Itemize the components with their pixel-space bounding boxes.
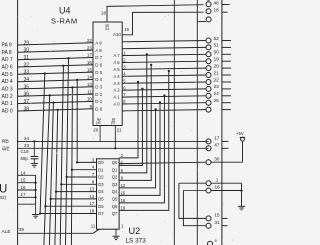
- svg-text:AD 2: AD 2: [2, 94, 13, 100]
- wire tap AD 0 down to U2 D4: [57, 109, 59, 111]
- connector pin 52: [206, 38, 211, 43]
- wire U4 A-line to connector 25: [122, 103, 206, 104]
- svg-text:37: 37: [24, 99, 30, 105]
- svg-text:32: 32: [24, 62, 30, 68]
- wire connector pin 1: [179, 182, 206, 184]
- svg-text:38: 38: [24, 106, 30, 112]
- svg-text:LS 373: LS 373: [126, 238, 147, 245]
- wire AD 2 (pin 36) from U to U4 pin 11: [18, 94, 93, 96]
- svg-text:23: 23: [87, 45, 93, 50]
- svg-text:D6: D6: [98, 204, 104, 209]
- svg-text:22: 22: [87, 38, 93, 43]
- connector pin 47 (WE): [206, 146, 211, 151]
- svg-text:23: 23: [214, 84, 220, 90]
- svg-text:30: 30: [214, 156, 220, 161]
- svg-text:AD 0: AD 0: [2, 109, 13, 115]
- svg-text:35: 35: [24, 84, 30, 90]
- svg-text:A 4: A 4: [114, 74, 121, 79]
- svg-text:Q1: Q1: [112, 167, 118, 172]
- svg-text:8: 8: [123, 99, 126, 104]
- svg-text:34: 34: [24, 77, 30, 83]
- svg-text:25: 25: [214, 98, 220, 104]
- svg-text:17: 17: [214, 135, 220, 140]
- connector pin cut at bottom edge: [208, 241, 213, 245]
- svg-text:3: 3: [92, 157, 95, 162]
- svg-text:+5V: +5V: [236, 131, 244, 136]
- svg-text:D 5: D 5: [95, 70, 102, 75]
- svg-text:33: 33: [24, 70, 30, 76]
- svg-text:Q6: Q6: [112, 204, 118, 209]
- U4 pin 21 WE stub: [114, 126, 116, 149]
- svg-text:11: 11: [91, 223, 96, 228]
- svg-text:A 3: A 3: [114, 81, 121, 86]
- wire U2 D7 input (pin 18): [40, 213, 96, 215]
- wire U2 D5 input (pin 14): [51, 198, 97, 200]
- svg-text:S-RAM: S-RAM: [51, 17, 78, 26]
- wire RD from U pin 24 to U4 OE and connector 17: [18, 140, 209, 142]
- svg-text:6: 6: [121, 168, 124, 173]
- wire AD 5 (pin 33) from U to U4 pin 15: [18, 72, 93, 74]
- wire continues to bottom edge: [70, 170, 73, 245]
- svg-text:D 0: D 0: [95, 107, 102, 112]
- svg-text:Q0: Q0: [112, 160, 118, 165]
- svg-text:6: 6: [123, 85, 126, 90]
- wire U2 Q3 (pin 9) up to address line: [119, 65, 151, 181]
- wire U2 VCC pin 20 to connector 30 and +5V: [119, 162, 206, 163]
- wire to connector pin 31: [183, 191, 206, 226]
- svg-text:A 8: A 8: [95, 48, 102, 53]
- connector pin 1 (GND): [206, 181, 211, 186]
- wire PA 9 (pin 29) from U to U4 pin 22: [18, 43, 93, 45]
- wire to ground: [35, 204, 37, 214]
- svg-text:D0: D0: [98, 160, 104, 165]
- svg-text:14: 14: [87, 75, 93, 80]
- svg-text:A 5: A 5: [114, 67, 121, 72]
- svg-text:68p: 68p: [21, 156, 29, 161]
- ground right rail: [238, 206, 245, 209]
- junction dots pins 15,16,17: [35, 182, 37, 184]
- svg-text:30: 30: [24, 48, 30, 54]
- wire tap AD 6 down to U2 D3: [62, 65, 64, 67]
- vertical bus line: [173, 0, 175, 245]
- svg-text:7: 7: [92, 172, 95, 177]
- wire U4 A-line to connector 20: [122, 68, 206, 69]
- svg-text:5: 5: [121, 160, 124, 165]
- wire U4 A-line to connector 52: [122, 41, 206, 42]
- svg-text:U: U: [0, 184, 7, 196]
- wire ALE from U pin 39 to U2 pin 11: [18, 232, 93, 234]
- svg-text:'39: '39: [18, 227, 24, 232]
- wire U2 D0 input (pin 3): [77, 161, 96, 163]
- wire continues to bottom edge: [60, 184, 61, 245]
- connector pin (unlabeled): [206, 17, 211, 22]
- connector pin: [206, 107, 211, 112]
- svg-text:15: 15: [214, 213, 220, 218]
- svg-text:A 1: A 1: [114, 95, 121, 100]
- connector pin 51: [206, 45, 211, 50]
- svg-text:AD 4: AD 4: [2, 79, 13, 85]
- wire from top edge to connector pin: [197, 0, 206, 22]
- wire U4 A-line to connector 22: [122, 82, 206, 83]
- svg-text:A 7: A 7: [114, 53, 121, 58]
- wire U4 A-line to connector pin: [122, 110, 206, 111]
- wire continues to bottom edge: [49, 199, 50, 245]
- svg-text:11: 11: [87, 89, 92, 94]
- wire U4 CS pin 18 to connector 48: [107, 5, 204, 22]
- svg-text:1: 1: [121, 223, 124, 228]
- svg-text:D 6: D 6: [95, 63, 102, 68]
- svg-text:̅O̅E: ̅O̅E: [111, 118, 116, 126]
- svg-text:2: 2: [123, 58, 126, 63]
- connector pin 31: [206, 223, 211, 228]
- svg-text:19: 19: [124, 27, 129, 32]
- svg-text:D 7: D 7: [95, 55, 102, 60]
- U pins 14,15,16,17 stub cells: [18, 174, 36, 176]
- svg-text:Q5: Q5: [112, 197, 118, 202]
- connector pin cut at top edge: [206, 0, 211, 1]
- svg-text:19: 19: [121, 205, 126, 210]
- svg-text:A10: A10: [113, 32, 121, 37]
- connector pin 48: [206, 2, 211, 7]
- svg-text:29: 29: [24, 40, 30, 46]
- wire U4 A-line to connector 50: [122, 54, 206, 55]
- svg-text:21: 21: [117, 127, 122, 132]
- wire U2 Q5 (pin 15) up to address line: [119, 102, 160, 195]
- connector pin 24: [206, 93, 211, 98]
- wire U2 Q4 (pin 12) up to address line: [119, 109, 156, 188]
- svg-text:12: 12: [121, 183, 126, 188]
- svg-text:31: 31: [24, 55, 30, 61]
- connector strip edge: [221, 0, 223, 245]
- svg-text:15: 15: [21, 178, 27, 183]
- wire to connector pin 15: [179, 183, 206, 218]
- svg-text:15: 15: [121, 190, 126, 195]
- wire tap AD 4 down to U2 D0: [76, 79, 78, 81]
- ground for U2 OE: [112, 236, 119, 239]
- wire U2 Q7 (pin 19) up to address line: [119, 71, 169, 210]
- svg-text:A 0: A 0: [114, 102, 121, 107]
- svg-text:20: 20: [93, 127, 98, 132]
- svg-text:17: 17: [90, 201, 95, 206]
- svg-text:24: 24: [24, 136, 30, 141]
- svg-text:22: 22: [214, 77, 220, 83]
- svg-text:4: 4: [123, 71, 126, 76]
- wire PA 8 (pin 30) from U to U4 pin 23: [18, 50, 93, 52]
- svg-text:2: 2: [121, 153, 124, 158]
- connector pin 20: [206, 66, 211, 71]
- wire continues to bottom edge: [44, 206, 46, 245]
- connector pin 50: [206, 52, 211, 57]
- svg-text:13: 13: [87, 82, 93, 87]
- svg-text:16: 16: [215, 185, 221, 190]
- connector pin 22: [206, 80, 211, 85]
- svg-text:AD 1: AD 1: [2, 101, 13, 107]
- connector pin 18: [206, 9, 211, 14]
- wire AD 6 (pin 32) from U to U4 pin 16: [18, 65, 93, 67]
- svg-text:1: 1: [123, 51, 126, 56]
- wire tap AD 1 down to U2 D5: [52, 102, 54, 104]
- connector pin 17 (RD): [206, 139, 211, 144]
- svg-text:8: 8: [92, 179, 95, 184]
- svg-text:36: 36: [24, 92, 30, 98]
- svg-text:A 6: A 6: [114, 60, 121, 65]
- svg-text:D7: D7: [98, 211, 104, 216]
- svg-text:9: 9: [121, 175, 124, 180]
- svg-text:16: 16: [21, 185, 27, 190]
- wire U2 D3 input (pin 8): [61, 183, 96, 185]
- wire tap AD 7 down to U2 D2: [67, 57, 69, 59]
- connector pin 19: [206, 59, 211, 64]
- capacitor C18 68p: [33, 141, 35, 156]
- wire U4 A10 pin 19 to connector 18: [122, 12, 203, 35]
- wire WE from U pin 23 to U4 WE and connector 47: [18, 147, 209, 149]
- chip U (MCU) right edge, cut off at image left: [17, 0, 19, 245]
- svg-text:U4: U4: [59, 6, 71, 16]
- svg-text:A 2: A 2: [114, 88, 121, 93]
- ground for U pins 15-17: [32, 215, 39, 218]
- svg-text:02): 02): [0, 195, 7, 200]
- svg-text:48: 48: [214, 0, 220, 5]
- wire U2 Q2 (pin 6) up to address line: [119, 54, 147, 172]
- svg-text:51: 51: [214, 43, 220, 49]
- svg-text:D 1: D 1: [95, 99, 102, 104]
- wire AD 1 (pin 37) from U to U4 pin 10: [18, 101, 93, 103]
- wire U2 D6 input (pin 17): [45, 205, 96, 207]
- wire connector pin 16: [183, 190, 206, 192]
- wire U2 Q0 (pin 2) up to address line: [119, 82, 138, 158]
- svg-text:W̅E̅: W̅E̅: [2, 145, 10, 151]
- svg-text:14: 14: [21, 170, 27, 175]
- svg-text:24: 24: [214, 91, 220, 97]
- connector pin 21: [206, 73, 211, 78]
- svg-text:18: 18: [101, 11, 106, 16]
- wire tap AD 3 down to U2 D1: [71, 86, 73, 88]
- svg-text:17: 17: [21, 192, 27, 197]
- wire U2 Q6 (pin 16) up to address line: [119, 96, 164, 203]
- svg-text:3: 3: [123, 65, 126, 70]
- wire U2 D2 input (pin 7): [67, 176, 97, 178]
- svg-text:9: 9: [89, 104, 92, 109]
- svg-text:D5: D5: [98, 197, 104, 202]
- svg-text:AD 7: AD 7: [2, 57, 13, 63]
- svg-text:16: 16: [121, 198, 126, 203]
- U2 pin 1 OE to ground: [115, 229, 117, 236]
- U4 pin 20 OE stub: [99, 126, 101, 142]
- svg-text:21: 21: [214, 70, 220, 76]
- S-RAM U4 body: [93, 22, 122, 126]
- svg-text:20: 20: [214, 63, 220, 69]
- wire AD 4 (pin 34) from U to U4 pin 14: [18, 80, 93, 82]
- connector pin 16 (GND): [206, 188, 211, 193]
- svg-text:10: 10: [87, 97, 93, 102]
- svg-text:PA 9: PA 9: [2, 43, 12, 49]
- connector pin 23: [206, 86, 211, 91]
- svg-text:52: 52: [214, 36, 220, 42]
- svg-text:15: 15: [87, 67, 93, 72]
- svg-text:Q4: Q4: [112, 189, 118, 194]
- svg-text:D1: D1: [98, 167, 104, 172]
- svg-text:C̅S̅: C̅S̅: [104, 24, 110, 31]
- svg-text:D2: D2: [98, 175, 104, 180]
- svg-text:14: 14: [90, 194, 95, 199]
- vertical bus line 2: [196, 22, 198, 245]
- svg-text:AD 3: AD 3: [2, 87, 13, 93]
- svg-text:D 4: D 4: [95, 77, 102, 82]
- svg-text:Q7: Q7: [112, 211, 118, 216]
- wire U2 D4 input (pin 13): [56, 191, 97, 193]
- svg-text:23: 23: [24, 143, 30, 148]
- svg-text:Q3: Q3: [112, 182, 118, 187]
- connector pin 30 (+5V): [206, 160, 211, 165]
- svg-text:50: 50: [214, 50, 220, 56]
- wire AD 0 (pin 38) from U to U4 pin 9: [18, 109, 93, 111]
- svg-text:47: 47: [214, 143, 220, 148]
- wire U4 A-line to connector 23: [122, 89, 206, 90]
- svg-text:13: 13: [90, 187, 95, 192]
- +5V supply symbol: [242, 141, 244, 162]
- wire U4 A-line to connector 51: [122, 47, 206, 48]
- wire AD 3 (pin 35) from U to U4 pin 13: [18, 87, 93, 89]
- svg-text:31: 31: [214, 220, 220, 225]
- svg-text:U2: U2: [129, 226, 141, 236]
- svg-text:AD 6: AD 6: [2, 65, 13, 71]
- svg-text:5: 5: [215, 238, 218, 243]
- svg-text:16: 16: [87, 60, 93, 65]
- wire U4 A-line to connector 21: [122, 75, 206, 76]
- latch U2 LS373 body: [97, 159, 120, 229]
- wire U2 D1 input (pin 4): [72, 169, 97, 171]
- svg-text:D4: D4: [98, 189, 104, 194]
- svg-text:7: 7: [123, 92, 126, 97]
- wire tap AD 5 down to U2 D7: [44, 72, 46, 74]
- svg-text:5: 5: [123, 78, 126, 83]
- svg-text:D3: D3: [98, 182, 104, 187]
- svg-text:18: 18: [214, 8, 220, 13]
- wire continues to bottom edge: [66, 177, 67, 245]
- connector pin 25: [206, 100, 211, 105]
- svg-text:D 3: D 3: [95, 85, 102, 90]
- wire U4 A-line to connector 24: [122, 96, 206, 97]
- svg-text:D 2: D 2: [95, 92, 102, 97]
- ground for C18: [31, 164, 38, 167]
- svg-text:C18: C18: [21, 149, 30, 154]
- svg-text:ALE: ALE: [2, 229, 11, 235]
- svg-text:AD 5: AD 5: [2, 72, 13, 78]
- svg-text:4: 4: [92, 165, 95, 170]
- svg-text:PA 8: PA 8: [2, 50, 12, 56]
- svg-text:1: 1: [216, 177, 219, 182]
- svg-text:Q2: Q2: [112, 175, 118, 180]
- connector pin 15: [206, 216, 211, 221]
- svg-text:̅W̅E: ̅W̅E: [96, 117, 101, 126]
- wire U2 Q1 (pin 5) up to address line: [119, 89, 142, 166]
- svg-text:19: 19: [214, 57, 220, 63]
- svg-text:18: 18: [90, 209, 95, 214]
- svg-text:A 9: A 9: [95, 41, 102, 46]
- svg-text:R̅D̅: R̅D̅: [2, 138, 10, 144]
- wire U4 A-line to connector 19: [122, 61, 206, 62]
- wire tap AD 2 down to U2 D6: [49, 94, 51, 96]
- wire continues to bottom edge: [55, 192, 56, 245]
- wire AD 7 (pin 31) from U to U4 pin 17: [18, 58, 93, 60]
